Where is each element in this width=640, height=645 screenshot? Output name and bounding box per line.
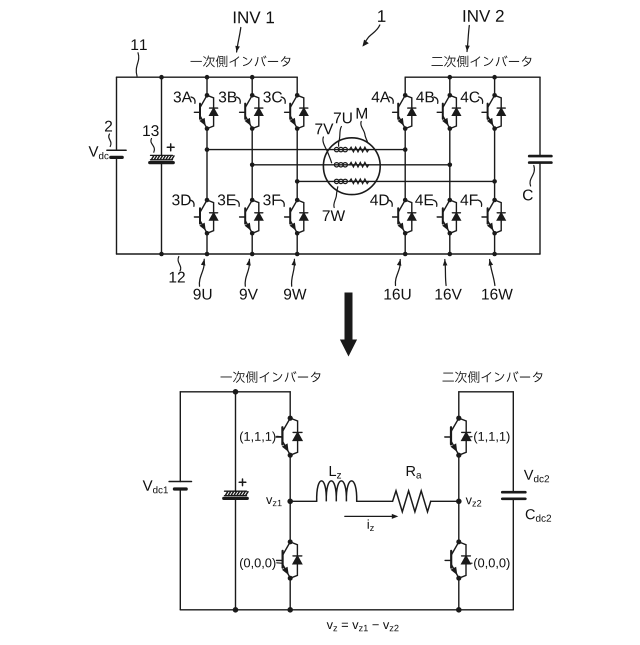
smoothing capacitor (bottom fig) [224,491,248,498]
leg midsection 4A [404,129,406,200]
U-phase wire 3A to 4A [207,149,405,151]
label 7V [315,124,333,135]
right column upper [539,77,541,156]
transistor 3A [194,93,217,131]
phase tap node INV2 leg 2 [448,163,453,168]
bottom fig: left top bus [180,391,290,393]
bottom fig: right top bus [459,391,514,393]
bottom fig: right leg bottom wire [458,578,460,610]
label 4D [370,195,389,206]
bottom fig: right column lower [512,499,514,610]
node vz1 [287,499,293,505]
label 9V [240,289,258,300]
transistor 4B [437,93,460,131]
transistor 4E [437,198,460,236]
label secondary-side inverter (top) [432,55,532,67]
plus of smoothing capacitor [239,479,246,486]
junction bottom bus / right leg [456,607,462,613]
capacitor 13 (electrolytic) [150,155,174,162]
label 4B [416,92,434,103]
label (1,1,1) left [240,432,275,444]
junction bottom bus / C13 [159,252,164,257]
leader for 3D [190,200,194,206]
transistor 4F [482,198,505,236]
label primary-side inverter (bottom) [221,371,321,383]
label 4A [372,92,391,103]
bottom fig: left leg mid wire [289,455,291,542]
label 2 [105,121,112,132]
label 3C [263,91,282,102]
label Lz [330,466,341,478]
label primary-side inverter (top) [191,55,291,67]
label iz [368,519,374,531]
resistor Ra [393,491,431,512]
leg 3B collector wire [251,77,253,95]
label M [357,108,367,119]
bottom fig: right column upper [512,392,514,492]
junction top bus / 4B [448,75,453,80]
leader dash (0,0,0) right [468,562,472,564]
transistor 4D [393,198,416,236]
bottom fig: capacitor column upper [235,392,237,492]
label 7U [334,113,352,124]
label INV 1 [234,12,274,24]
leader for 3E [235,200,239,206]
left column upper [116,77,118,150]
leader for 3B [236,97,240,103]
label 7W [323,210,345,221]
leader for 4F [478,200,482,206]
transistor 4A [393,93,416,131]
battery Vdc1 [169,482,191,490]
label INV 2 [464,10,504,22]
inductor Lz [317,481,357,501]
junction bottom bus / cap (bottom fig) [233,607,239,613]
W-phase wire 3C to 4C [297,180,494,182]
label (1,1,1) right [474,432,509,444]
right column lower [539,163,541,254]
transistor 3E [240,198,263,236]
junction bottom bus / phase leg 5 [448,252,453,257]
label vz1 [266,497,282,506]
leg 4F emitter wire [494,233,496,254]
transistor 3F [285,198,308,236]
motor U-phase winding (coil + resistance) [334,147,368,152]
label 4E [415,195,433,206]
arrow 16V [443,260,448,286]
motor W-phase winding (coil + resistance) [334,179,368,184]
label 12 [170,272,185,283]
label 16W [482,289,513,300]
label C [523,189,533,200]
top bus INV 2 [405,76,540,78]
junction bottom bus / phase leg 1 [205,252,210,257]
leader for M [361,122,368,142]
junction bottom bus / left leg [287,607,293,613]
leg midsection 3B [251,129,253,200]
phase tap node INV2 leg 3 [492,179,497,184]
leg 3D emitter wire [206,233,208,254]
leader for 3A [191,97,195,103]
label (0,0,0) right [474,558,509,570]
label (0,0,0) left [240,558,275,570]
leg midsection 3C [296,129,298,200]
junction bottom bus / phase leg 2 [250,252,255,257]
phase tap node INV1 leg 1 [205,147,210,152]
arrow INV 1 pointer [235,28,241,53]
leader for 12 [178,257,181,272]
junction top bus / 3B [250,75,255,80]
arrow 1 pointer [362,25,379,47]
label 16U [384,289,410,300]
bottom fig: left leg top wire [289,392,291,418]
leader for C [530,166,534,187]
bottom fig: left leg bottom wire [289,578,291,610]
branch wire Lz to Ra [357,500,393,502]
transistor 3B [240,93,263,131]
capacitor C [529,156,551,163]
leader for 13 [151,139,155,153]
branch wire vz1 to Lz [290,500,317,502]
phase tap node INV1 leg 2 [250,163,255,168]
motor V-phase winding (coil + resistance) [334,162,368,167]
leader for 7U [339,127,342,147]
junction bottom bus / phase leg 4 [403,252,408,257]
leader for 7V [323,137,332,163]
leg 3C collector wire [296,77,298,95]
leader for 7W [334,187,338,208]
label vz2 [466,498,482,507]
junction bottom bus / phase leg 6 [492,252,497,257]
leader for 11 [136,53,139,76]
node vz2 [456,499,462,505]
top bus INV 1 [117,76,298,78]
equation vz = vz1 - vz2 [327,622,399,631]
bottom fig: bottom bus [180,609,513,611]
arrow INV 2 pointer [465,26,470,52]
label 9U [194,289,212,300]
leader for 4E [433,200,437,206]
label 16V [435,289,461,300]
transistor lower-arm switch (0,0,0) right [445,539,470,580]
label Vdc [89,146,109,159]
current arrow iz [345,514,399,519]
transistor upper-arm switch (1,1,1) left [276,416,302,458]
leg 3E emitter wire [251,233,253,254]
transistor 3C [285,93,308,131]
transistor upper-arm switch (1,1,1) right [445,416,471,458]
arrow 9U [199,259,205,286]
V-phase wire 3B to 4B [252,164,450,166]
big transition arrow [340,293,357,357]
junction top bus / 4C [492,75,497,80]
capacitor Cdc2 [502,492,525,499]
label 4C [461,91,480,102]
leg 3A collector wire [206,77,208,95]
label Ra [407,466,422,479]
junction top bus / cap (bottom fig) [233,389,239,395]
leg 4C collector wire [494,77,496,95]
leg 4A collector wire [404,77,406,95]
arrow 16U [395,260,401,286]
label 11 [131,39,146,50]
label 3D [172,194,190,205]
arrow 9V [245,259,251,286]
bottom fig: left column upper [179,392,181,482]
leg midsection 4C [494,129,496,200]
arrow 9W [292,259,297,286]
leader for 2 [109,134,111,147]
label 3F [263,194,280,205]
plus of capacitor 13 [167,144,174,151]
leader dash (1,1,1) right [468,436,472,438]
phase tap node INV1 leg 3 [295,179,300,184]
leader for 4A [389,97,393,103]
leg 4B collector wire [449,77,451,95]
label 1 [378,10,385,22]
label Vdc2 [524,470,549,483]
label 9W [284,289,306,300]
label Cdc2 [526,509,551,522]
leg 3F emitter wire [296,233,298,254]
bottom fig: left column lower [179,489,181,610]
junction top bus / C13 [159,75,164,80]
label 3B [219,91,237,102]
label secondary-side inverter (bottom) [443,371,543,383]
leader for 4D [388,200,392,206]
left column lower [116,157,118,254]
label 3A [174,91,192,102]
capacitor column lower [161,163,163,254]
bottom bus [117,253,541,255]
leg midsection 3A [206,129,208,200]
leg 4E emitter wire [449,233,451,254]
label Vdc1 [143,480,168,493]
label 13 [143,125,158,136]
phase tap node INV2 leg 1 [403,147,408,152]
leg midsection 4B [449,129,451,200]
bottom fig: right leg top wire [458,392,460,418]
leader for 4B [434,97,438,103]
motor M circle [323,138,380,195]
bottom fig: capacitor column lower [235,499,237,610]
junction bottom bus / phase leg 3 [295,252,300,257]
leader dash (0,0,0) left [277,562,282,564]
junction top bus / 3A [205,75,210,80]
arrow 16W [489,260,495,286]
leader dash (1,1,1) left [277,435,282,437]
label 4F [460,195,477,206]
bottom fig: right leg mid wire [458,455,460,542]
leader for 4C [479,97,483,103]
capacitor column upper [161,77,163,155]
battery Vdc [107,150,126,157]
leg 4D emitter wire [404,233,406,254]
transistor 4C [482,93,505,131]
leader for 3F [280,200,284,206]
label 3E [218,194,236,205]
transistor 3D [194,198,217,236]
transistor lower-arm switch (0,0,0) left [277,539,302,580]
leader for 3C [281,97,285,103]
branch wire Ra to vz2 [431,500,459,502]
